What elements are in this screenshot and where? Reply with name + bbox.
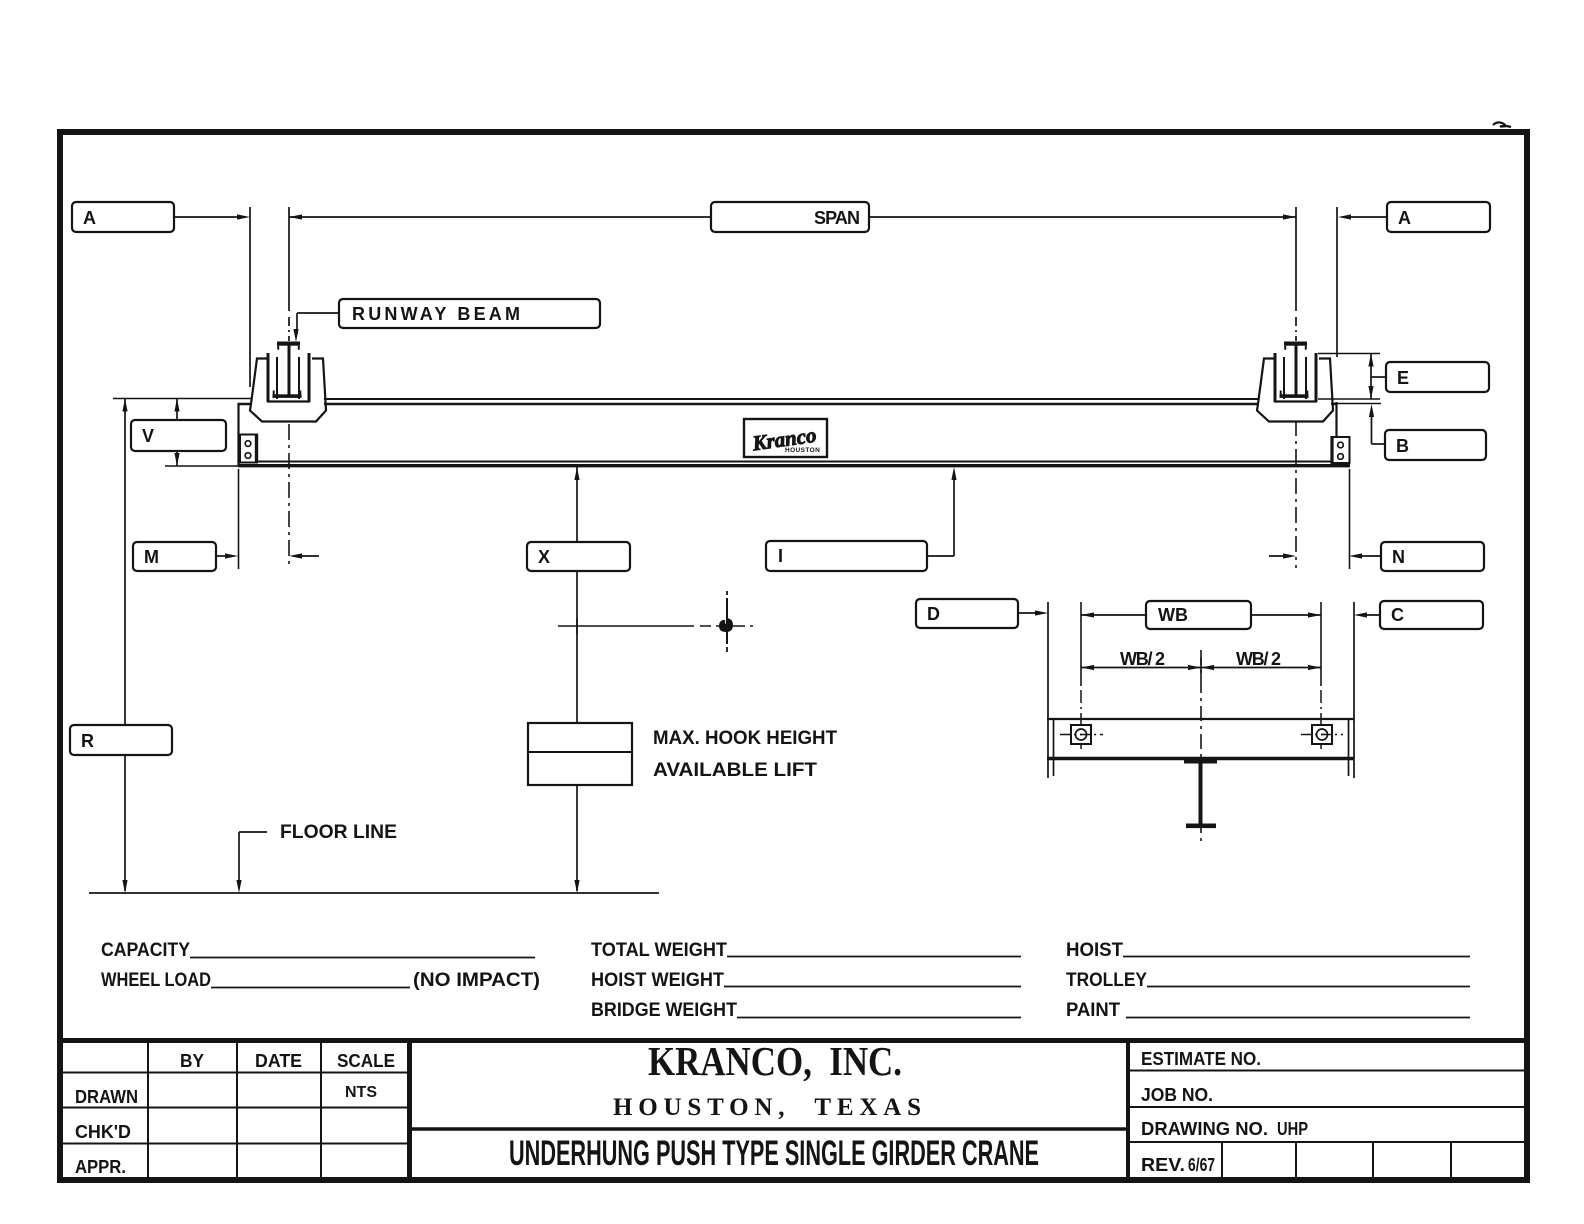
hook position crosshair: [726, 591, 728, 595]
smudge mark on top border: [1493, 122, 1511, 127]
kranco logo on girder: [744, 419, 827, 457]
dimension A right leader: [1349, 216, 1387, 218]
svg-text:R: R: [81, 731, 94, 751]
label box E: [1386, 362, 1489, 392]
svg-text:NTS: NTS: [345, 1084, 377, 1101]
svg-text:I: I: [778, 546, 783, 566]
svg-text:6/67: 6/67: [1188, 1155, 1215, 1175]
hook height reference line: [558, 625, 694, 627]
svg-text:REV.: REV.: [1141, 1155, 1185, 1175]
hoist load bar I-section: [1184, 760, 1217, 829]
svg-text:AVAILABLE LIFT: AVAILABLE LIFT: [653, 760, 817, 781]
svg-text:HOIST WEIGHT: HOIST WEIGHT: [591, 970, 724, 991]
svg-text:MAX. HOOK HEIGHT: MAX. HOOK HEIGHT: [653, 728, 837, 749]
svg-text:DRAWING NO.: DRAWING NO.: [1141, 1119, 1268, 1139]
WB dimension: [1080, 602, 1082, 686]
girder bottom thin line: [238, 461, 1350, 463]
N dimension: [1349, 469, 1351, 569]
right girder end bracket plate: [1332, 437, 1350, 464]
svg-text:V: V: [142, 426, 154, 446]
svg-text:DATE: DATE: [255, 1051, 302, 1071]
extension line right girder end (A): [1336, 207, 1338, 357]
label box I: [766, 541, 927, 571]
trolley centerline: [1200, 650, 1202, 846]
M dimension: [238, 469, 240, 569]
label box M: [133, 542, 216, 571]
right runway beam I-section: [1280, 342, 1309, 398]
svg-text:ESTIMATE NO.: ESTIMATE NO.: [1141, 1049, 1261, 1069]
svg-text:WB/ 2: WB/ 2: [1236, 649, 1281, 669]
svg-text:N: N: [1392, 547, 1405, 567]
svg-text:(NO IMPACT): (NO IMPACT): [413, 970, 540, 991]
bottom data fields: [101, 940, 1470, 1021]
border frame: [60, 132, 1527, 1180]
C label leader: [1360, 614, 1380, 616]
svg-text:UNDERHUNG PUSH TYPE SINGLE GIR: UNDERHUNG PUSH TYPE SINGLE GIRDER CRANE: [509, 1134, 1039, 1173]
svg-text:APPR.: APPR.: [75, 1157, 126, 1177]
svg-text:TROLLEY: TROLLEY: [1066, 970, 1147, 991]
label box RUNWAY BEAM: [339, 299, 600, 328]
svg-text:B: B: [1396, 436, 1409, 456]
svg-text:BY: BY: [180, 1051, 204, 1071]
svg-text:FLOOR LINE: FLOOR LINE: [280, 822, 397, 843]
B dimension: [1371, 408, 1373, 444]
X dimension line (hook centerline): [576, 467, 578, 891]
label box SPAN: [711, 202, 869, 232]
WB/2 dimensions: [1081, 667, 1321, 669]
label box A left: [72, 202, 174, 232]
left runway beam I-section: [273, 342, 302, 398]
svg-text:WB/ 2: WB/ 2: [1120, 649, 1165, 669]
svg-text:WB: WB: [1158, 605, 1188, 625]
girder top flange line: [238, 403, 1336, 405]
svg-text:HOUSTON: HOUSTON: [785, 447, 820, 454]
floor line leader: [239, 831, 267, 833]
girder right end edge: [1335, 402, 1337, 467]
svg-text:RUNWAY BEAM: RUNWAY BEAM: [352, 304, 520, 324]
span dimension line: [289, 216, 711, 218]
E dimension: [1318, 353, 1380, 355]
trolley frame side view: [1047, 602, 1049, 778]
V dimension: [113, 398, 252, 400]
girder bottom flange line: [238, 464, 1350, 467]
extension line left girder end (A): [249, 207, 251, 387]
I leader: [927, 555, 954, 557]
hook block: [528, 723, 632, 785]
right end truck carrier body: [1257, 353, 1333, 422]
runway centerline left: [288, 207, 290, 311]
label box N: [1381, 542, 1484, 571]
girder top thin line: [252, 398, 1332, 400]
svg-text:JOB NO.: JOB NO.: [1141, 1085, 1213, 1105]
svg-text:CHK'D: CHK'D: [75, 1122, 131, 1142]
girder left end edge: [237, 403, 239, 467]
svg-text:PAINT: PAINT: [1066, 1000, 1120, 1021]
label box V: [131, 420, 226, 451]
trolley wheel right: [1312, 725, 1332, 744]
left end truck carrier body: [250, 353, 326, 422]
svg-text:WHEEL LOAD: WHEEL LOAD: [101, 970, 211, 991]
left girder end bracket plate: [240, 434, 257, 463]
floor line: [89, 892, 659, 894]
svg-text:M: M: [144, 547, 159, 567]
label boxes: [70, 202, 1490, 755]
R dimension line: [124, 399, 126, 892]
dimension A left leader: [174, 216, 239, 218]
svg-text:SCALE: SCALE: [337, 1051, 395, 1071]
svg-text:DRAWN: DRAWN: [75, 1087, 138, 1107]
svg-text:E: E: [1397, 368, 1409, 388]
label box C: [1380, 601, 1483, 629]
title block grid: [60, 1039, 1527, 1181]
svg-text:C: C: [1391, 605, 1404, 625]
D label leader: [1018, 612, 1042, 614]
svg-text:CAPACITY: CAPACITY: [101, 940, 190, 961]
svg-text:UHP: UHP: [1277, 1119, 1308, 1139]
svg-text:X: X: [538, 547, 550, 567]
runway beam leader: [297, 312, 339, 314]
runway centerline right: [1295, 207, 1297, 311]
svg-text:SPAN: SPAN: [814, 208, 860, 228]
label box WB: [1146, 601, 1251, 629]
label box A right: [1387, 202, 1490, 232]
label texts: [81, 208, 1411, 843]
label box X: [527, 542, 630, 571]
svg-text:TOTAL WEIGHT: TOTAL WEIGHT: [591, 940, 727, 961]
svg-text:BRIDGE WEIGHT: BRIDGE WEIGHT: [591, 1000, 737, 1021]
svg-text:KRANCO, INC.: KRANCO, INC.: [648, 1038, 902, 1084]
svg-text:A: A: [1398, 208, 1411, 228]
label box R: [70, 725, 172, 755]
label box D: [916, 599, 1018, 628]
svg-text:HOIST: HOIST: [1066, 940, 1123, 961]
svg-text:A: A: [83, 208, 96, 228]
label box B: [1385, 430, 1486, 460]
trolley wheel left: [1071, 725, 1091, 744]
svg-text:D: D: [927, 604, 940, 624]
